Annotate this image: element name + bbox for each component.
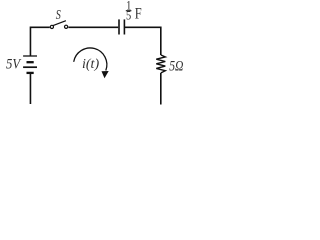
svg-text:5V: 5V [6,57,22,73]
wire switch to capacitor [68,26,118,28]
wire left vertical above battery [29,27,31,56]
current direction arc i(t) [74,48,107,71]
switch S left contact [50,25,53,28]
switch S right contact [65,25,68,28]
svg-text:S: S [56,6,61,22]
current arrowhead [102,71,109,78]
svg-text:F: F [135,5,142,23]
svg-text:5: 5 [126,9,131,23]
svg-text:5Ω: 5Ω [169,57,183,73]
wire below battery [29,74,31,104]
battery B plate 1 long [23,55,37,57]
wire below resistor [160,73,162,105]
battery B plate 3 long [23,66,37,68]
capacitor C right plate [123,19,125,34]
svg-text:i(t): i(t) [82,57,99,72]
switch S blade [53,21,66,26]
wire top-left horizontal (corner to switch) [30,26,50,28]
battery B plate 2 short thick [27,61,34,63]
battery B plate 4 short thick [27,72,34,74]
resistor R zigzag [156,55,165,73]
wire capacitor to top-right corner and down to resistor [125,27,161,55]
capacitor C left plate [118,19,120,34]
label capacitor value 1/5 F [126,0,142,23]
